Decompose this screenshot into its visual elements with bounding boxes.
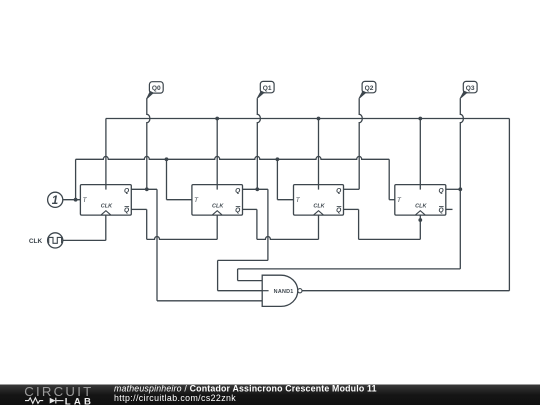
svg-text:NAND1: NAND1 bbox=[274, 289, 294, 295]
svg-text:CLK: CLK bbox=[415, 204, 427, 210]
svg-text:CLK: CLK bbox=[29, 238, 43, 245]
svg-text:CLK: CLK bbox=[212, 204, 224, 210]
svg-text:Q1: Q1 bbox=[263, 85, 272, 92]
svg-text:Q: Q bbox=[438, 207, 444, 214]
svg-text:Q: Q bbox=[124, 207, 130, 214]
svg-text:Q0: Q0 bbox=[152, 85, 161, 92]
svg-text:LAB: LAB bbox=[65, 396, 94, 405]
svg-text:Q: Q bbox=[235, 187, 241, 194]
svg-text:CLK: CLK bbox=[313, 204, 325, 210]
svg-text:CLK: CLK bbox=[101, 204, 113, 210]
svg-text:Q: Q bbox=[124, 187, 130, 194]
svg-text:http://circuitlab.com/cs22znk: http://circuitlab.com/cs22znk bbox=[114, 393, 236, 403]
svg-text:Q: Q bbox=[235, 207, 241, 214]
svg-text:matheuspinheiro / Contador Ass: matheuspinheiro / Contador Assincrono Cr… bbox=[114, 384, 377, 394]
svg-text:Q3: Q3 bbox=[466, 85, 475, 92]
svg-text:Q: Q bbox=[336, 187, 342, 194]
svg-text:Q: Q bbox=[438, 187, 444, 194]
svg-text:Q: Q bbox=[336, 207, 342, 214]
svg-text:1: 1 bbox=[52, 195, 58, 207]
svg-text:Q2: Q2 bbox=[365, 85, 374, 92]
